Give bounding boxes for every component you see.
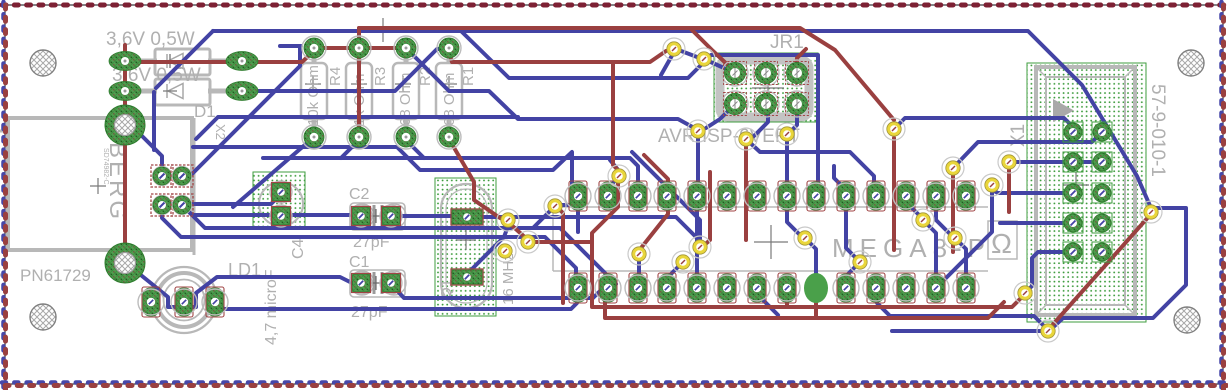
svg-text:R4: R4 xyxy=(327,67,344,86)
svg-text:C2: C2 xyxy=(349,186,370,203)
svg-text:57-9-010-1: 57-9-010-1 xyxy=(1147,84,1168,177)
svg-text:AVR-ISP-6VERT: AVR-ISP-6VERT xyxy=(658,126,800,147)
svg-text:R3: R3 xyxy=(372,67,389,86)
svg-text:3,6V 0,5W: 3,6V 0,5W xyxy=(106,29,195,50)
svg-text:27pF: 27pF xyxy=(351,304,388,321)
svg-text:JR1: JR1 xyxy=(770,32,804,53)
svg-text:R1: R1 xyxy=(460,67,477,86)
svg-text:C1: C1 xyxy=(349,254,370,271)
svg-text:SD74982-C: SD74982-C xyxy=(102,148,109,185)
svg-text:D1: D1 xyxy=(194,102,216,121)
svg-text:PN61729: PN61729 xyxy=(20,266,91,285)
svg-text:C4: C4 xyxy=(290,238,307,259)
svg-text:Ω: Ω xyxy=(991,228,1012,259)
